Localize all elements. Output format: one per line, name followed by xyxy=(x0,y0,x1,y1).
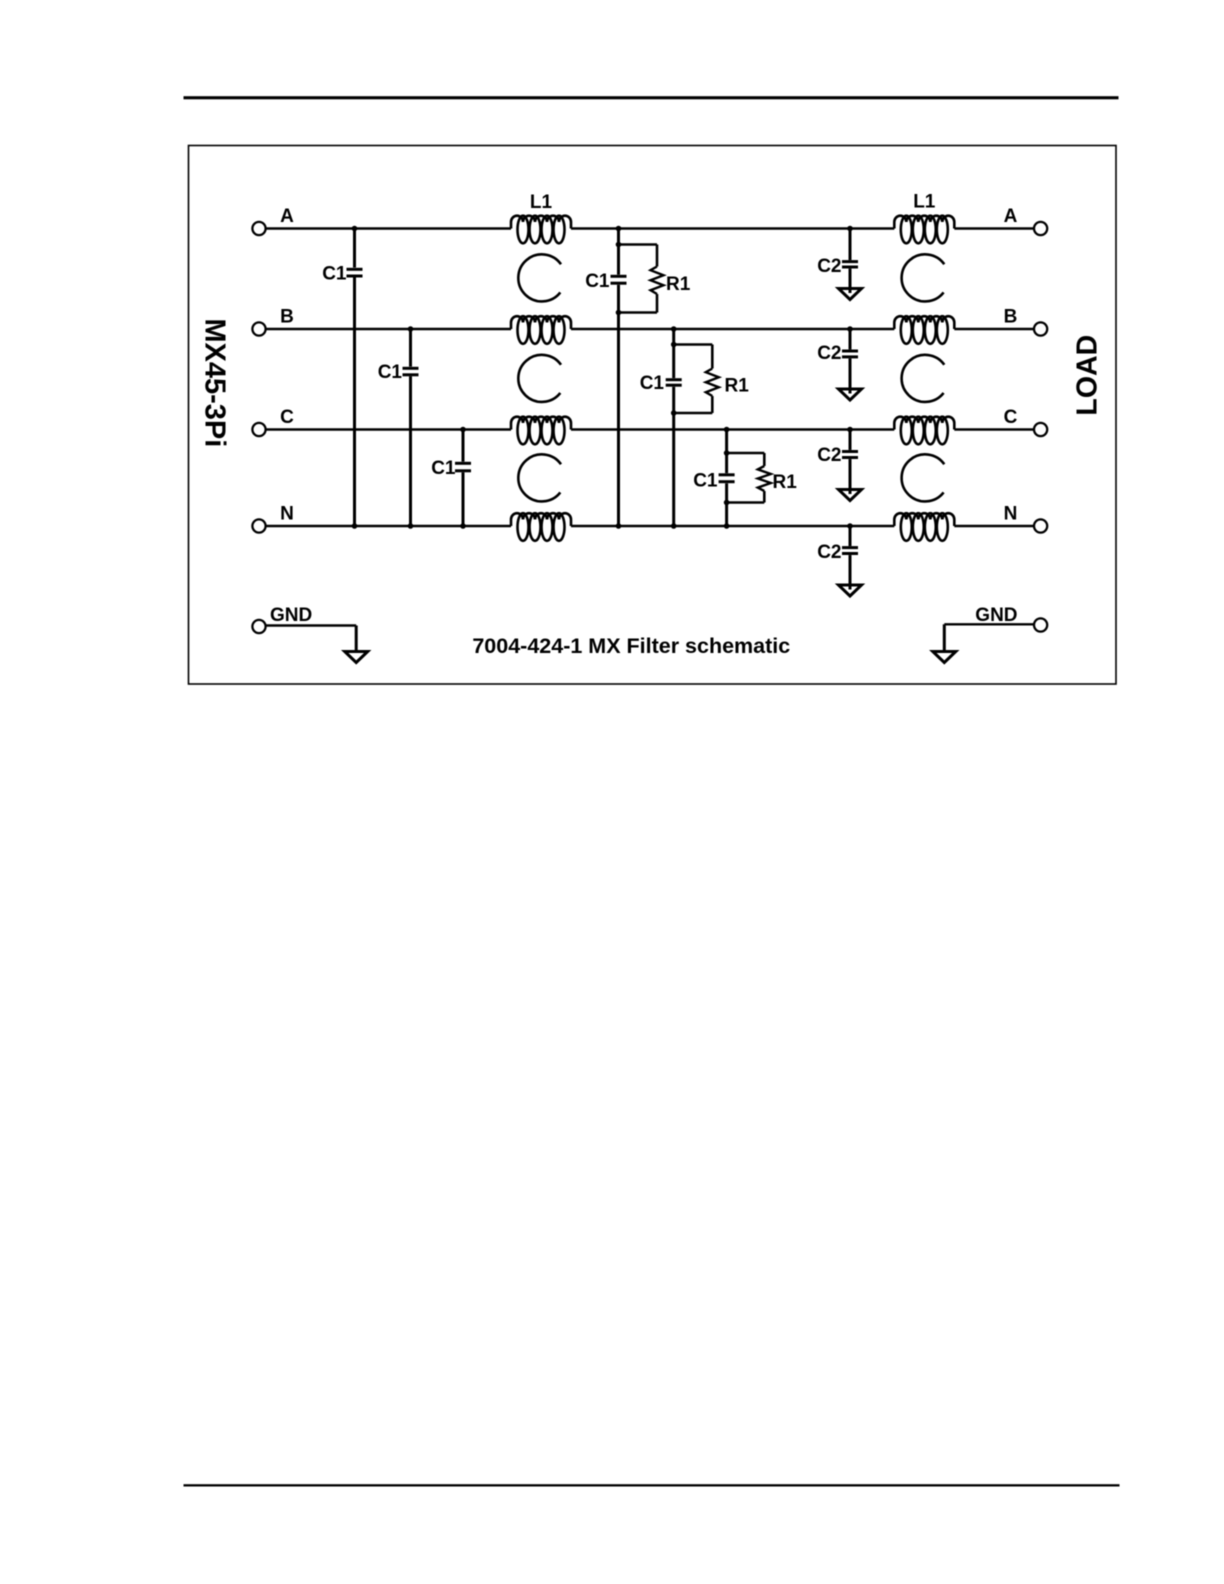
svg-text:A: A xyxy=(280,206,294,227)
svg-text:C1: C1 xyxy=(585,271,610,292)
svg-text:C2: C2 xyxy=(817,256,841,277)
svg-text:R1: R1 xyxy=(725,376,750,397)
svg-text:L1: L1 xyxy=(913,192,936,213)
svg-text:N: N xyxy=(1004,504,1018,525)
svg-text:C1: C1 xyxy=(640,373,665,394)
svg-text:A: A xyxy=(1004,206,1018,227)
svg-text:C: C xyxy=(1004,407,1018,428)
svg-text:7004-424-1 MX Filter schematic: 7004-424-1 MX Filter schematic xyxy=(472,634,790,658)
svg-text:R1: R1 xyxy=(666,274,691,295)
svg-text:B: B xyxy=(1004,307,1018,328)
svg-text:C1: C1 xyxy=(322,264,347,285)
svg-text:C1: C1 xyxy=(693,471,718,492)
svg-text:C2: C2 xyxy=(817,445,841,466)
svg-text:C2: C2 xyxy=(817,343,841,364)
svg-text:L1: L1 xyxy=(530,192,553,213)
svg-text:C: C xyxy=(280,407,294,428)
svg-text:LOAD: LOAD xyxy=(1071,335,1103,416)
svg-text:C1: C1 xyxy=(378,362,403,383)
svg-text:GND: GND xyxy=(270,605,312,626)
svg-text:GND: GND xyxy=(975,605,1017,626)
svg-text:B: B xyxy=(280,307,294,328)
svg-text:N: N xyxy=(280,504,294,525)
svg-text:C2: C2 xyxy=(817,542,841,563)
svg-text:R1: R1 xyxy=(773,472,798,493)
svg-text:C1: C1 xyxy=(431,458,456,479)
svg-text:MX45-3Pi: MX45-3Pi xyxy=(198,318,230,447)
